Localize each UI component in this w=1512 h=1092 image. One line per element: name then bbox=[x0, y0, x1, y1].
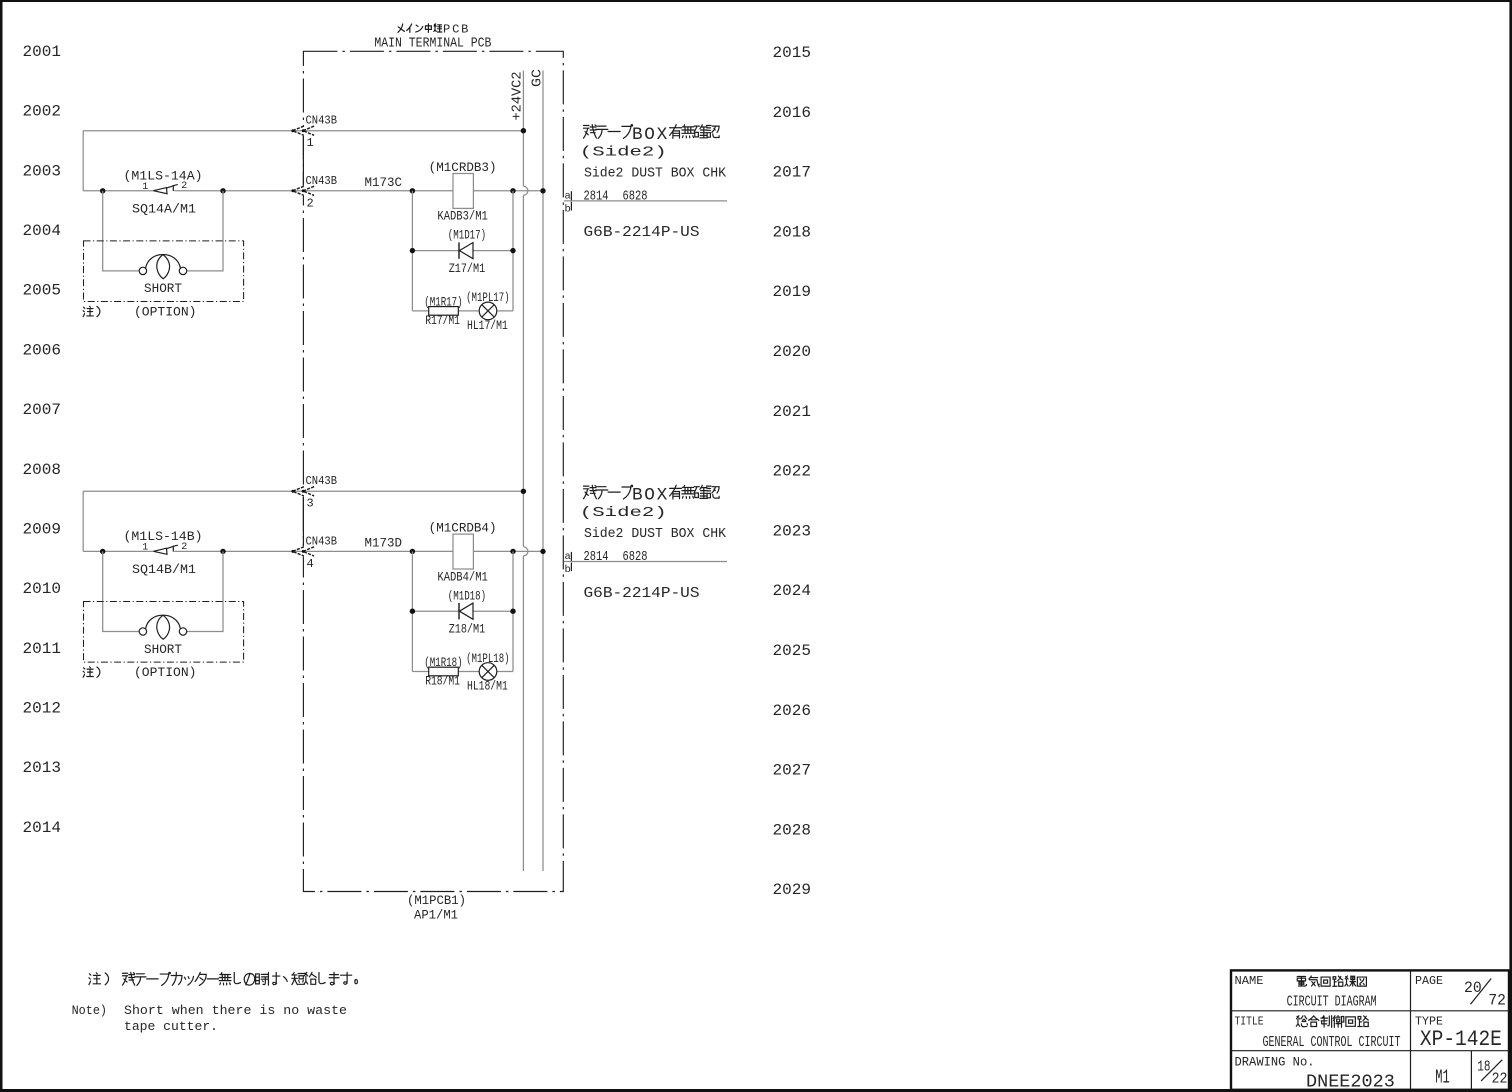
svg-text:b: b bbox=[565, 204, 571, 216]
svg-text:2001: 2001 bbox=[23, 43, 62, 61]
svg-text:1: 1 bbox=[142, 182, 148, 193]
svg-text:2814: 2814 bbox=[584, 188, 609, 204]
relay coil CRDB3 bbox=[453, 174, 473, 209]
svg-text:2025: 2025 bbox=[773, 642, 812, 660]
connector CN43B pin 4 bbox=[293, 547, 304, 556]
svg-text:b: b bbox=[565, 564, 571, 576]
wires: diode/lamp branch verticals bbox=[412, 551, 513, 671]
svg-text:2022: 2022 bbox=[773, 463, 812, 481]
wires: diode/lamp branch verticals bbox=[412, 191, 513, 311]
svg-text:2012: 2012 bbox=[23, 699, 62, 717]
note mark bbox=[83, 306, 93, 316]
wires: short-option branch bbox=[103, 191, 223, 271]
svg-text:O: O bbox=[644, 125, 655, 145]
svg-text:(M1R17): (M1R17) bbox=[424, 296, 462, 310]
relay coil CRDB4 bbox=[453, 534, 473, 569]
GC rail bbox=[542, 71, 544, 872]
svg-text:Z18/M1: Z18/M1 bbox=[449, 622, 486, 636]
svg-text:2019: 2019 bbox=[773, 283, 812, 301]
svg-text:2014: 2014 bbox=[23, 819, 62, 837]
svg-text:R17/M1: R17/M1 bbox=[425, 314, 460, 328]
pilot lamp HL17/M1 bbox=[479, 302, 497, 320]
svg-text:2010: 2010 bbox=[23, 580, 62, 598]
svg-text:SQ14A/M1: SQ14A/M1 bbox=[132, 201, 196, 216]
svg-text:2005: 2005 bbox=[23, 282, 62, 300]
node: relay branch left bbox=[410, 188, 415, 193]
wire hop over +24VC2 row4 bbox=[523, 547, 528, 556]
svg-text:6828: 6828 bbox=[623, 188, 648, 204]
note mark bbox=[83, 667, 93, 677]
wire hop over +24VC2 row2 bbox=[523, 186, 528, 195]
svg-text:2026: 2026 bbox=[773, 702, 812, 720]
svg-text:2027: 2027 bbox=[773, 762, 812, 780]
svg-text:2007: 2007 bbox=[23, 401, 62, 419]
svg-text:B: B bbox=[632, 486, 643, 506]
svg-text:2: 2 bbox=[181, 181, 187, 192]
node: switch right bbox=[220, 188, 225, 193]
wire: top feed row (CN43B 1) bbox=[83, 130, 523, 132]
svg-text:NAME: NAME bbox=[1235, 974, 1264, 988]
svg-text:2029: 2029 bbox=[773, 881, 812, 899]
svg-text:2814: 2814 bbox=[584, 549, 609, 565]
annotation: waste tape box check (Japanese) bbox=[584, 485, 597, 499]
svg-text:3: 3 bbox=[307, 497, 314, 511]
svg-text:2015: 2015 bbox=[773, 44, 812, 62]
svg-text:2017: 2017 bbox=[773, 164, 812, 182]
wire: row 2 segments bbox=[83, 550, 543, 552]
node: switch right bbox=[220, 549, 225, 554]
node: GC junction bbox=[540, 549, 545, 554]
svg-text:SHORT: SHORT bbox=[144, 642, 182, 657]
svg-text:2004: 2004 bbox=[23, 222, 62, 240]
zener diode Z18/M1 bbox=[458, 603, 460, 619]
svg-text:22: 22 bbox=[1492, 1071, 1508, 1088]
svg-text:C: C bbox=[452, 23, 459, 37]
node: switch left bbox=[100, 549, 105, 554]
pilot lamp HL18/M1 bbox=[479, 663, 497, 681]
svg-text:(OPTION): (OPTION) bbox=[134, 304, 197, 319]
svg-text:(Side2): (Side2) bbox=[580, 505, 667, 521]
limit switch SQ14A/M1 (M1LS-14A) bbox=[153, 188, 167, 194]
svg-text:(OPTION): (OPTION) bbox=[134, 665, 197, 680]
svg-text:2008: 2008 bbox=[23, 461, 62, 479]
svg-text:2009: 2009 bbox=[23, 520, 62, 538]
svg-text:Short when there is no waste: Short when there is no waste bbox=[124, 1003, 347, 1018]
svg-text:2: 2 bbox=[307, 196, 314, 210]
svg-text:DNEE2023: DNEE2023 bbox=[1306, 1073, 1395, 1092]
svg-text:6828: 6828 bbox=[623, 549, 648, 565]
svg-text:P: P bbox=[443, 23, 450, 37]
svg-text:Side2 DUST BOX CHK: Side2 DUST BOX CHK bbox=[584, 165, 727, 181]
resistor R17/M1 bbox=[429, 307, 459, 316]
wire: row 2 segments bbox=[83, 190, 543, 192]
svg-text:(M1CRDB4): (M1CRDB4) bbox=[429, 522, 497, 536]
PCB enclosure dash-dot box bbox=[303, 51, 563, 891]
wire: contact output bbox=[564, 200, 727, 202]
svg-text:DRAWING No.: DRAWING No. bbox=[1235, 1054, 1315, 1069]
svg-text:KADB3/M1: KADB3/M1 bbox=[437, 210, 487, 224]
wire: left rail bbox=[82, 131, 84, 191]
svg-text:1: 1 bbox=[142, 543, 148, 554]
svg-text:(M1CRDB3): (M1CRDB3) bbox=[429, 161, 497, 175]
svg-text:2003: 2003 bbox=[23, 162, 62, 180]
svg-text:(M1LS-14B): (M1LS-14B) bbox=[124, 529, 203, 544]
svg-text:4: 4 bbox=[307, 557, 314, 571]
wires: resistor row bbox=[412, 310, 513, 312]
svg-text:2: 2 bbox=[181, 542, 187, 553]
svg-text:M1: M1 bbox=[1435, 1067, 1450, 1089]
svg-text:CN43B: CN43B bbox=[306, 174, 338, 188]
node: diode right bbox=[510, 609, 515, 614]
svg-text:MAIN TERMINAL PCB: MAIN TERMINAL PCB bbox=[374, 37, 491, 52]
svg-text:TITLE: TITLE bbox=[1235, 1015, 1264, 1029]
svg-text:tape cutter.: tape cutter. bbox=[124, 1019, 218, 1034]
node: relay branch left bbox=[410, 549, 415, 554]
svg-text:R18/M1: R18/M1 bbox=[425, 675, 460, 689]
svg-text:Note): Note) bbox=[72, 1003, 107, 1018]
svg-text:AP1/M1: AP1/M1 bbox=[414, 907, 458, 922]
OPTION dash-dot box bbox=[84, 602, 244, 663]
svg-text:CN43B: CN43B bbox=[306, 474, 338, 488]
svg-text:M173C: M173C bbox=[365, 175, 403, 190]
svg-text:(Side2): (Side2) bbox=[580, 145, 667, 161]
wires: diode row bbox=[412, 250, 513, 252]
svg-text:2018: 2018 bbox=[773, 223, 812, 241]
node: diode left bbox=[410, 609, 415, 614]
svg-text:2024: 2024 bbox=[773, 582, 812, 600]
+24VC2 power rail bbox=[522, 71, 524, 872]
svg-text:72: 72 bbox=[1488, 992, 1506, 1010]
svg-text:2002: 2002 bbox=[23, 103, 62, 121]
svg-text:2021: 2021 bbox=[773, 403, 812, 421]
svg-text:XP-142E: XP-142E bbox=[1420, 1027, 1502, 1052]
wire: contact output bbox=[564, 561, 727, 563]
svg-text:2006: 2006 bbox=[23, 341, 62, 359]
svg-text:2013: 2013 bbox=[23, 759, 62, 777]
node: switch left bbox=[100, 188, 105, 193]
connector CN43B pin 2 bbox=[293, 186, 304, 195]
svg-text:SHORT: SHORT bbox=[144, 281, 182, 296]
svg-text:2016: 2016 bbox=[773, 104, 812, 122]
svg-text:CN43B: CN43B bbox=[306, 113, 338, 127]
SHORT jumper symbol bbox=[139, 628, 146, 635]
svg-text:HL18/M1: HL18/M1 bbox=[467, 680, 508, 694]
svg-text:Z17/M1: Z17/M1 bbox=[449, 262, 486, 276]
limit switch SQ14B/M1 (M1LS-14B) bbox=[153, 548, 167, 554]
svg-text:(M1LS-14A): (M1LS-14A) bbox=[124, 168, 203, 183]
main terminal PCB label bbox=[398, 24, 404, 32]
svg-text:2020: 2020 bbox=[773, 343, 812, 361]
svg-text:1: 1 bbox=[307, 136, 314, 150]
annotation: waste tape box check (Japanese) bbox=[584, 125, 597, 139]
wire: left rail bbox=[82, 491, 84, 551]
SHORT jumper symbol bbox=[139, 267, 146, 274]
svg-text:X: X bbox=[657, 486, 668, 506]
svg-text:(M1D17): (M1D17) bbox=[448, 229, 486, 243]
svg-text:X: X bbox=[657, 125, 668, 145]
connector CN43B pin 1 bbox=[293, 126, 304, 135]
svg-text:O: O bbox=[644, 486, 655, 506]
node: relay branch right bbox=[510, 188, 515, 193]
svg-text:(M1R18): (M1R18) bbox=[424, 656, 462, 670]
svg-text:2011: 2011 bbox=[23, 640, 62, 658]
svg-text:CIRCUIT DIAGRAM: CIRCUIT DIAGRAM bbox=[1287, 993, 1377, 1010]
wires: short-option branch bbox=[103, 551, 223, 631]
node: diode left bbox=[410, 248, 415, 253]
svg-text:2028: 2028 bbox=[773, 821, 812, 839]
zener diode Z17/M1 bbox=[458, 242, 460, 258]
svg-text:(M1D18): (M1D18) bbox=[448, 589, 486, 603]
svg-text:SQ14B/M1: SQ14B/M1 bbox=[132, 562, 196, 577]
svg-text:M173D: M173D bbox=[365, 536, 403, 551]
svg-text:G6B-2214P-US: G6B-2214P-US bbox=[584, 224, 700, 241]
svg-text:2023: 2023 bbox=[773, 522, 812, 540]
svg-text:+24VC2: +24VC2 bbox=[511, 72, 526, 121]
note (Japanese): short when no waste tape cutter bbox=[89, 973, 101, 985]
svg-text:CN43B: CN43B bbox=[306, 535, 338, 549]
svg-text:B: B bbox=[461, 23, 468, 37]
wire: top feed row (CN43B 3) bbox=[83, 490, 523, 492]
svg-text:(M1PCB1): (M1PCB1) bbox=[407, 893, 466, 908]
svg-text:HL17/M1: HL17/M1 bbox=[467, 319, 508, 333]
node: +24VC2 junction bbox=[521, 489, 526, 494]
wires: diode row bbox=[412, 610, 513, 612]
resistor R18/M1 bbox=[429, 667, 459, 676]
svg-text:(M1PL18): (M1PL18) bbox=[466, 652, 510, 666]
svg-text:G6B-2214P-US: G6B-2214P-US bbox=[584, 585, 700, 602]
node: +24VC2 junction bbox=[521, 128, 526, 133]
svg-text:KADB4/M1: KADB4/M1 bbox=[437, 570, 487, 584]
wires: resistor row bbox=[412, 671, 513, 673]
node: diode right bbox=[510, 248, 515, 253]
svg-text:GC: GC bbox=[531, 69, 546, 87]
OPTION dash-dot box bbox=[84, 241, 244, 302]
connector CN43B pin 3 bbox=[293, 487, 304, 496]
svg-text:Side2 DUST BOX CHK: Side2 DUST BOX CHK bbox=[584, 526, 727, 542]
svg-text:GENERAL CONTROL CIRCUIT: GENERAL CONTROL CIRCUIT bbox=[1263, 1034, 1401, 1051]
svg-text:PAGE: PAGE bbox=[1415, 974, 1443, 988]
node: relay branch right bbox=[510, 549, 515, 554]
node: GC junction bbox=[540, 188, 545, 193]
title block frame bbox=[1231, 970, 1509, 1089]
svg-text:(M1PL17): (M1PL17) bbox=[466, 291, 510, 305]
svg-text:B: B bbox=[632, 125, 643, 145]
